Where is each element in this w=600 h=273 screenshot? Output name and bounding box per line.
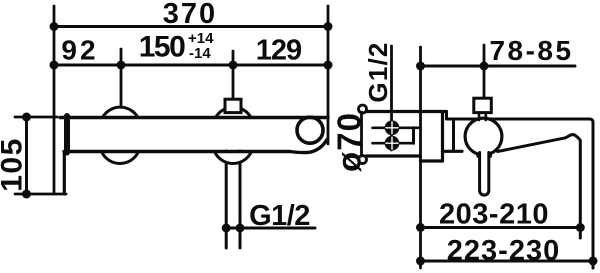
side view: flange edge / dia70 dim line (360, 112, 363, 156)
wire: right extension line x=328 (spout tip, front view) (327, 6, 330, 144)
wire: 105 top extension (15, 116, 57, 119)
wire: G1/2 leader vertical (390, 46, 393, 150)
svg-text:203-210: 203-210 (439, 199, 549, 231)
dimension 105 vertical line (25, 117, 28, 194)
node: dot 78-85 right (480, 62, 489, 71)
side view: neck vertical (452, 121, 455, 152)
side view: body right edge (441, 112, 444, 161)
node: dot 105 top (22, 113, 31, 122)
wire: extension above mount2 (232, 51, 235, 100)
side view: flange ring top (359, 105, 367, 113)
side view: spout bottom slope and outlet inner edge (498, 135, 581, 238)
node: dot 223-230 left (416, 257, 425, 266)
front view: mount1 upper dome (103, 107, 138, 117)
side view: neck bottom line (443, 150, 463, 153)
front view: bar bottom edge and spout curve (64, 140, 327, 153)
node: dot row2 x121 (117, 61, 126, 70)
node: dot 370 right (324, 22, 333, 31)
svg-text:129: 129 (256, 35, 302, 67)
wire: extension handle top (483, 45, 486, 98)
side view: inlet bracket vertical (412, 128, 415, 143)
svg-text:92: 92 (61, 35, 98, 66)
side view: cartridge circle (465, 118, 502, 155)
front view: mount1 lower dome (102, 152, 139, 164)
side view: inlet top line (367, 110, 447, 113)
front view: spout end circle (297, 117, 323, 143)
dimension 203-210 line (421, 226, 581, 229)
svg-text:78-85: 78-85 (489, 35, 573, 66)
node: dot 203-210 right (576, 223, 585, 232)
node: dot 78-85 left (416, 62, 425, 71)
node: dot row2 x54 (50, 61, 59, 70)
side view: eccentric union upper (385, 120, 400, 135)
svg-text:G1/2: G1/2 (249, 200, 310, 232)
side view: handle stem left (478, 112, 481, 120)
side view: lever joint nub left (476, 154, 481, 159)
front view: mount2 supply pipe left edge (225, 151, 228, 248)
node: dot pipe right (236, 224, 245, 233)
svg-text:223-230: 223-230 (447, 235, 560, 267)
node: dot 223-230 right (589, 257, 598, 266)
svg-text:150: 150 (139, 31, 185, 64)
node: dot 370 left (50, 22, 59, 31)
svg-text:370: 370 (163, 0, 217, 30)
side view: flange ring bottom (359, 156, 367, 164)
node: dot row2 x233 (229, 61, 238, 70)
front view: mount2 cartridge square (225, 99, 241, 112)
front view: mount2 upper dome (216, 107, 251, 117)
node: dot 105 bottom (22, 190, 31, 199)
front view: left lower pipe line (63, 152, 66, 194)
side view: handle square (474, 98, 492, 112)
svg-text:-14: -14 (189, 45, 211, 62)
wire: left extension / wall line x=54 (53, 6, 56, 194)
node: dot pipe left (222, 224, 231, 233)
side view: inlet stub lower (373, 142, 414, 145)
side view: handle stem right (484, 112, 487, 120)
node: dot 203-210 left (416, 223, 425, 232)
front view G1/2 leader line (225, 227, 315, 230)
front view: mixer bar left cap (64, 116, 70, 153)
wire: 105 bottom extension (15, 193, 66, 196)
wire: extension above mount1 (120, 49, 123, 108)
front view: mount2 lower dome (215, 152, 252, 164)
dimension 370 line (54, 25, 328, 28)
side view: inlet stub upper (373, 127, 421, 130)
side view: lever handle (480, 153, 489, 196)
side view: spout top edge with right outer edge (447, 119, 594, 268)
side view: wall line (419, 47, 422, 268)
side view: body bottom edge (421, 159, 443, 162)
front view: bar top edge (60, 116, 328, 119)
svg-text:ø70: ø70 (331, 112, 368, 172)
front view: mount2 supply pipe right edge (239, 151, 242, 248)
dimension 223-230 line (421, 260, 594, 263)
svg-text:105: 105 (0, 137, 29, 192)
dimension 78-85 line (421, 65, 576, 68)
svg-text:G1/2: G1/2 (363, 41, 393, 102)
node: dot row2 x328 (324, 61, 333, 70)
dimension row2 line (92/150/129) (54, 64, 328, 67)
side view: inlet bottom line (367, 154, 421, 157)
side view: lever joint nub right (488, 154, 493, 159)
side view: eccentric union lower (385, 136, 400, 151)
side view: step down corner (445, 112, 448, 120)
